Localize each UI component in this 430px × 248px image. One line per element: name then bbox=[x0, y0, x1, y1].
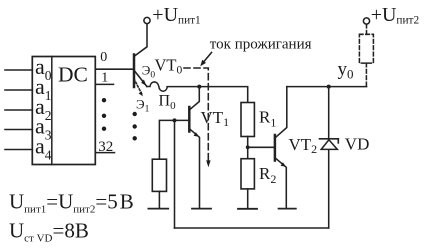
wire base node to bottom return bbox=[174, 120, 176, 228]
ground under R2 bbox=[238, 208, 257, 210]
wire VT1 base with divider resistor bbox=[159, 120, 189, 159]
transistor VT0 bbox=[134, 24, 147, 97]
svg-text:DC: DC bbox=[58, 63, 88, 87]
resistor R2 bbox=[241, 159, 254, 189]
resistor (unlabelled) in VT1 base bbox=[152, 159, 166, 191]
dashed programming current path bbox=[184, 68, 211, 167]
svg-text:ток прожигания: ток прожигания bbox=[210, 37, 312, 53]
input a0 wire bbox=[5, 69, 32, 71]
svg-text:VD: VD bbox=[345, 135, 370, 154]
dashed programming resistor bbox=[359, 24, 373, 86]
wire output 1 stub bbox=[95, 83, 113, 85]
wire output 0 to VT0 base bbox=[95, 68, 134, 70]
node VT1 base junction bbox=[173, 118, 177, 122]
svg-text:0: 0 bbox=[100, 50, 107, 65]
node VT1 collector junction bbox=[197, 85, 201, 89]
transistor VT2 bbox=[275, 87, 287, 209]
wire R1 to R2 bbox=[247, 137, 249, 159]
wire bottom return bbox=[175, 227, 329, 229]
input a4 wire bbox=[5, 149, 32, 151]
node VD junction bbox=[327, 85, 331, 89]
wire output 32 stub bbox=[95, 152, 114, 154]
transistor VT1 bbox=[189, 87, 199, 209]
ellipsis dots decoder outputs bbox=[102, 98, 106, 131]
wire junction to VT2 base bbox=[248, 146, 275, 148]
decoder DC box bbox=[32, 57, 95, 165]
wire R2 to ground bbox=[247, 189, 249, 208]
ground under left resistor bbox=[148, 208, 168, 210]
pointer arrow from label to dashed path bbox=[200, 53, 211, 67]
power terminal +Uпит2 bbox=[363, 4, 419, 27]
fuse П0 bbox=[147, 82, 167, 91]
ground under VT1 emitter bbox=[192, 208, 211, 210]
wire bit line bbox=[167, 87, 248, 103]
zener diode VD bbox=[320, 87, 339, 228]
input a1 wire bbox=[5, 89, 32, 91]
power terminal +Uпит1 bbox=[144, 4, 201, 27]
ellipsis dots emitters bbox=[133, 112, 137, 141]
ground under VT2 emitter bbox=[279, 208, 296, 210]
node R1 R2 junction bbox=[246, 145, 250, 149]
wire output y0 bbox=[287, 86, 367, 88]
wire resistor to ground bbox=[158, 191, 160, 208]
input a3 wire bbox=[5, 129, 32, 131]
input a2 wire bbox=[5, 109, 32, 111]
resistor R1 bbox=[241, 103, 254, 137]
svg-text:1: 1 bbox=[101, 71, 108, 86]
